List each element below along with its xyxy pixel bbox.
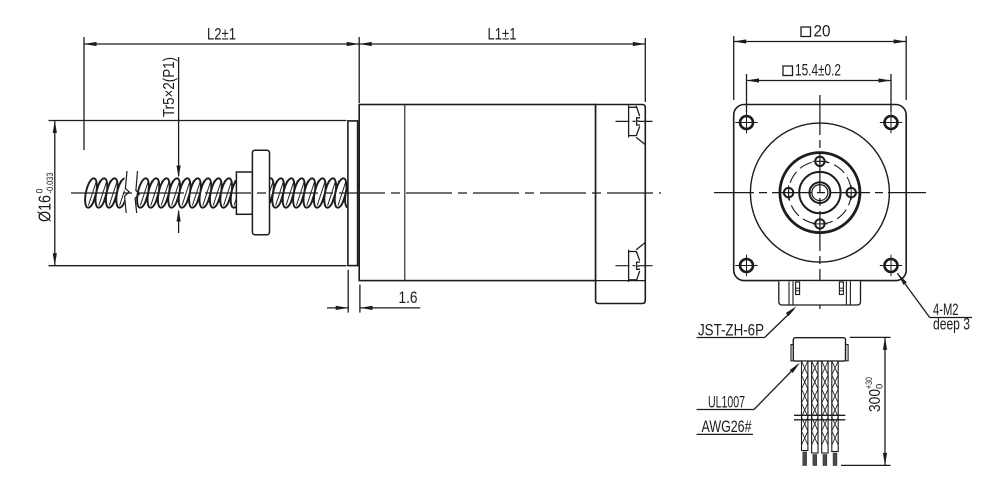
lead wires with insulation hatch [802, 361, 808, 451]
svg-text:L2±1: L2±1 [207, 26, 236, 44]
Ø16 extension line bottom [49, 265, 347, 267]
plug housing [791, 345, 794, 361]
Tr5x2(P1) callout lower arrow [178, 211, 180, 233]
rotor screw hole at (820,224) [815, 219, 824, 228]
UL1007 leader [754, 365, 798, 410]
300 dimension extension top [850, 336, 891, 338]
label Ø16 tolerance rotated [35, 173, 56, 223]
svg-text:deep 3: deep 3 [933, 316, 970, 334]
M2 mounting hole at (746,266) [740, 259, 753, 272]
300 dimension extension bottom [841, 464, 891, 466]
□20 extension lines [733, 36, 735, 100]
stripped wire tips [803, 452, 807, 466]
svg-text:15.4±0.2: 15.4±0.2 [795, 62, 841, 80]
svg-text:20: 20 [814, 23, 831, 41]
pilot body circle [750, 123, 889, 262]
flange square 20x20 [734, 105, 907, 281]
Ø16 dimension line [54, 121, 56, 266]
1.6 dimension line [327, 307, 348, 309]
socket inner walls right [845, 281, 847, 305]
front view vertical centerline [819, 95, 821, 313]
rotor boss circle bold [780, 153, 860, 233]
svg-text:L1±1: L1±1 [488, 26, 517, 44]
svg-text:Ø16: Ø16 [35, 195, 55, 222]
label □20 [801, 27, 811, 37]
label □15.4±0.2 [783, 66, 793, 76]
screw break symbol [125, 167, 137, 219]
nut flange disc [252, 150, 269, 235]
svg-text:1.6: 1.6 [399, 289, 418, 307]
socket pin slot right [839, 282, 843, 295]
motor body [359, 105, 595, 281]
rear end cap [596, 105, 646, 304]
inner boss circle [799, 172, 840, 213]
body seam line [404, 105, 406, 281]
JST socket housing outline [779, 281, 861, 305]
anti-rotation nut step [236, 172, 252, 214]
rotor screw hole at (789,193) [784, 188, 793, 197]
svg-text:+30: +30 [864, 377, 875, 389]
rear screw hole bottom [616, 243, 655, 282]
svg-text:-0.033: -0.033 [45, 173, 55, 194]
dimension L2 extension line left [83, 37, 85, 150]
M2 mounting hole at (746,122) [740, 116, 753, 129]
300 dimension line [884, 337, 886, 465]
motor front flange plate (1.6 thick) [348, 121, 358, 266]
label 300 +30/0 rotated [864, 377, 886, 412]
dimension line L2 [84, 43, 359, 45]
shaft ring inner [812, 185, 828, 201]
socket inner walls left [788, 281, 790, 305]
1.6 extension lines [347, 270, 349, 313]
svg-text:JST-ZH-6P: JST-ZH-6P [698, 322, 764, 340]
rotor screw hole at (820,161) [815, 157, 824, 166]
front view horizontal centerline [714, 192, 926, 194]
bolt circle dashed [789, 161, 852, 224]
body bottom line across cap [596, 280, 646, 282]
cable tie band [794, 414, 845, 416]
lead screw thread Tr5x2 [83, 177, 360, 208]
rotor screw hole at (851,193) [847, 188, 856, 197]
□15.4 dimension line [747, 80, 892, 82]
svg-text:Tr5×2(P1): Tr5×2(P1) [161, 57, 178, 117]
svg-text:300: 300 [867, 389, 884, 412]
M2 mounting hole at (891,266) [885, 259, 898, 272]
Ø16 extension line top [49, 120, 347, 122]
dimension line L1 [359, 43, 645, 45]
side view centerline [71, 192, 661, 194]
dimension L1 extension line right [644, 38, 646, 102]
svg-text:UL1007: UL1007 [708, 394, 745, 412]
□15.4 extension lines [746, 74, 748, 112]
dimension boundary extension at motor face [358, 37, 360, 103]
svg-text:0: 0 [875, 384, 886, 389]
svg-text:0: 0 [35, 188, 45, 193]
4-M2 leader arrow [897, 273, 929, 317]
□20 dimension line [734, 41, 907, 43]
shaft ring outer [810, 182, 831, 203]
Tr5x2(P1) callout upper arrow [178, 57, 180, 176]
socket pin slot left [796, 282, 800, 295]
label AWG26# [697, 433, 753, 435]
rear screw hole top [616, 105, 655, 144]
svg-text:AWG26#: AWG26# [702, 418, 752, 436]
M2 mounting hole at (891,122) [885, 116, 898, 129]
JST-ZH-6P leader [765, 310, 794, 338]
